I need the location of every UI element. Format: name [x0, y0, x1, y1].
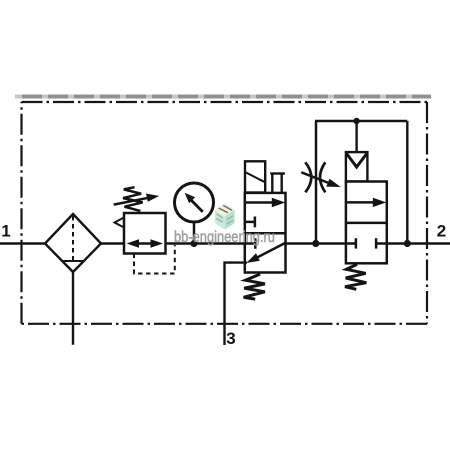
svg-text:1: 1: [1, 222, 10, 241]
svg-text:3: 3: [226, 329, 235, 348]
svg-text:bb-engineering.ru: bb-engineering.ru: [174, 229, 275, 247]
svg-text:2: 2: [437, 221, 446, 240]
